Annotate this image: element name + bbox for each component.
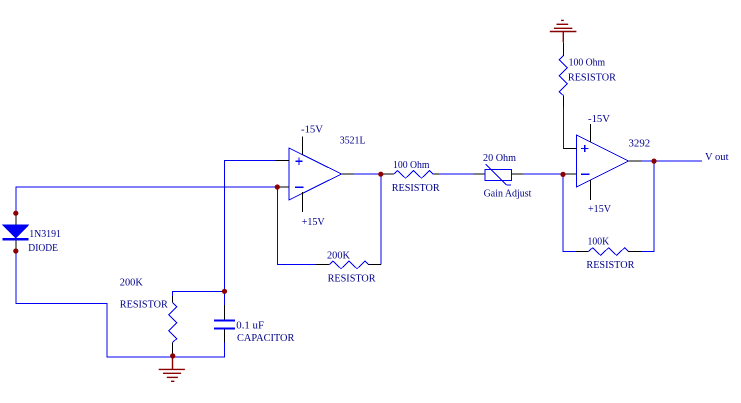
- label RESISTOR (R1): [120, 298, 169, 310]
- diode D1 1N3191: [2, 213, 28, 251]
- label RESISTOR (R2): [328, 273, 377, 285]
- svg-text:+15V: +15V: [302, 216, 325, 228]
- junction dot: diode bottom: [13, 248, 18, 253]
- svg-text:20 Ohm: 20 Ohm: [483, 152, 516, 164]
- resistor R5 100K (feedback U2): [576, 248, 642, 256]
- svg-text:RESISTOR: RESISTOR: [568, 72, 617, 84]
- label 200K (R1): [120, 276, 143, 288]
- label V out: [705, 151, 729, 163]
- wire: capacitor top stub from junction: [224, 291, 226, 305]
- label +15V (U2): [588, 203, 611, 215]
- svg-text:CAPACITOR: CAPACITOR: [237, 332, 295, 344]
- junction dot: U1 output: [378, 172, 383, 177]
- svg-text:+15V: +15V: [588, 203, 611, 215]
- ground GND2 (top right, inverted): [550, 20, 577, 42]
- capacitor C1 0.1 uF: [214, 305, 235, 343]
- op-amp U2 3292: [563, 124, 642, 200]
- wire: output junction to V out: [654, 160, 702, 162]
- svg-text:200K: 200K: [327, 250, 350, 262]
- wire: U1 inverting node down to feedback resistor R2: [277, 187, 316, 265]
- resistor R1 200K (vertical, left): [169, 303, 177, 356]
- potentiometer RV1 20 Ohm gain adjust: [473, 164, 523, 185]
- label 3292: [629, 138, 651, 150]
- label -15V (U1): [301, 123, 323, 135]
- wire: U2 inverting node down to feedback resistor R5: [563, 174, 576, 251]
- svg-text:3292: 3292: [629, 138, 651, 150]
- wire: U1 output to junction: [354, 173, 381, 175]
- svg-text:100K: 100K: [588, 236, 610, 248]
- label RESISTOR (R3): [392, 182, 441, 194]
- label CAPACITOR: [237, 332, 295, 344]
- svg-text:200K: 200K: [120, 276, 143, 288]
- svg-text:3521L: 3521L: [340, 134, 366, 146]
- svg-text:RESISTOR: RESISTOR: [586, 259, 635, 271]
- wire: U2 output to junction: [642, 160, 654, 162]
- label 100K (R5): [588, 236, 610, 248]
- wire: diode cathode down and across bottom to capacitor: [16, 251, 173, 357]
- svg-text:0.1 uF: 0.1 uF: [236, 319, 264, 331]
- resistor R3 100 Ohm (between op-amps): [381, 171, 439, 179]
- label -15V (U2): [588, 113, 610, 125]
- svg-text:100 Ohm: 100 Ohm: [393, 159, 430, 171]
- junction dot: U1 inverting input: [275, 184, 280, 189]
- label Gain Adjust: [484, 188, 532, 200]
- wire: ground node to capacitor bottom: [173, 343, 225, 357]
- label RESISTOR (R4): [568, 72, 617, 84]
- svg-text:-15V: -15V: [588, 113, 610, 125]
- label 100 Ohm (R4): [569, 57, 606, 69]
- label 1N3191: [29, 228, 61, 240]
- svg-text:RESISTOR: RESISTOR: [120, 298, 169, 310]
- wire: feedback resistor R2 up to U1 output node: [380, 174, 382, 265]
- wire: capacitor junction up to U1 non-inverting input: [225, 160, 276, 291]
- svg-text:V out: V out: [705, 151, 729, 163]
- wire: top 100 Ohm resistor R4 down to U2 non-inverting input: [563, 107, 576, 149]
- wire net: diode anode to op-amp U1 inverting input: [16, 187, 278, 213]
- junction dot: U2 inverting input: [560, 172, 565, 177]
- svg-text:1N3191: 1N3191: [29, 228, 61, 240]
- label 200K (R2): [327, 250, 350, 262]
- op-amp U1 3521L: [276, 137, 355, 213]
- label DIODE: [28, 242, 58, 254]
- label 0.1 uF: [236, 319, 264, 331]
- resistor R2 200K (feedback U1): [316, 261, 381, 269]
- svg-text:DIODE: DIODE: [28, 242, 58, 254]
- label RESISTOR (R5): [586, 259, 635, 271]
- label 3521L: [340, 134, 366, 146]
- label 20 Ohm: [483, 152, 516, 164]
- label 100 Ohm (R3): [393, 159, 430, 171]
- label +15V (U1): [302, 216, 325, 228]
- junction dot: diode top: [13, 211, 18, 216]
- resistor R4 100 Ohm (vertical, top right): [559, 42, 567, 106]
- junction dot: R1 bottom / ground: [170, 353, 175, 358]
- junction dot: capacitor top: [222, 289, 227, 294]
- svg-text:RESISTOR: RESISTOR: [328, 273, 377, 285]
- svg-text:-15V: -15V: [301, 123, 323, 135]
- svg-text:Gain Adjust: Gain Adjust: [484, 188, 532, 200]
- wire: gain adjust to U2 inverting node: [523, 173, 563, 175]
- svg-text:RESISTOR: RESISTOR: [392, 182, 441, 194]
- svg-text:100 Ohm: 100 Ohm: [569, 57, 606, 69]
- wire: junction to 200K resistor R1 top: [173, 292, 225, 303]
- wire: feedback resistor R5 up to U2 output node: [642, 161, 655, 251]
- wire: 100 Ohm resistor R3 to gain adjust: [439, 173, 473, 175]
- junction dot: U2 output: [651, 159, 656, 164]
- ground GND1 (bottom, below R1): [159, 356, 185, 382]
